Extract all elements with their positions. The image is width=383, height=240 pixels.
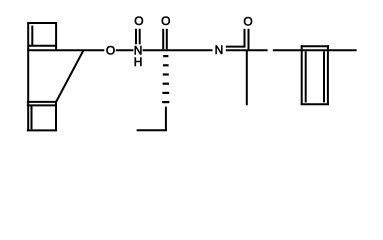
wire: bottom square second top line — [27, 104, 57, 106]
wire: solid bond below hash — [165, 107, 167, 131]
wire: bottom square inner double-bond line left — [31, 105, 33, 129]
wire: hashed wedge dash 2 — [163, 64, 169, 66]
wire: hashed wedge dash 4 — [163, 83, 169, 85]
wire: ring bottom edge — [301, 103, 329, 105]
wire: bottom square bottom edge — [27, 129, 57, 131]
wire: terminal methyl horizontal — [137, 129, 167, 131]
svg-text:O: O — [161, 14, 170, 28]
wire: main chain horizontal (square bottom edge extended to O) — [27, 49, 104, 51]
wire: chain through ring to right methyl — [273, 49, 357, 51]
wire: hashed wedge dash 6 — [162, 101, 169, 103]
wire: ring inner left vertical — [305, 51, 307, 102]
wire: top square top edge — [27, 22, 57, 24]
wire: C=O3 double bond line a — [162, 29, 164, 50]
wire: N1=O2 double bond line a — [135, 29, 137, 45]
wire: hashed wedge dash 5 — [162, 92, 169, 94]
wire: ring top double line — [301, 45, 329, 47]
svg-text:N: N — [215, 43, 224, 57]
svg-text:H: H — [134, 55, 143, 69]
wire: N2=C double bond lower line / chain — [226, 49, 268, 51]
wire: C=O5 double bond line b — [248, 29, 250, 50]
wire: N1=O2 double bond line b — [139, 29, 141, 45]
wire: bottom square right edge — [55, 101, 57, 131]
wire: ring inner right vertical — [323, 51, 325, 102]
wire: bond N1 to carbonyl C — [143, 49, 213, 51]
wire: cubane-left long vertical edge (shared left edge of both squares) — [27, 22, 29, 131]
wire: top square inner double-bond line bottom — [29, 45, 56, 47]
wire: C=O3 double bond line b — [166, 29, 168, 50]
wire: top square right edge — [55, 22, 57, 51]
wire: top square inner double-bond line left — [31, 26, 33, 46]
wire: diagonal bond — [56, 50, 83, 102]
wire: C=O5 double bond line a — [244, 29, 246, 48]
svg-text:O: O — [134, 14, 143, 28]
wire: N2=C double bond upper line — [226, 46, 245, 48]
svg-text:O: O — [243, 14, 252, 28]
wire: ring outer right vertical — [327, 45, 329, 105]
wire: hashed wedge dash 3 — [163, 73, 169, 75]
svg-text:O: O — [106, 44, 115, 58]
wire: bond O1 to N1 — [116, 49, 134, 51]
wire: hashed wedge dash 1 — [163, 55, 168, 57]
wire: ring outer left vertical — [301, 45, 303, 105]
wire: bottom square top edge — [27, 101, 57, 103]
wire: methyl below carbonyl — [246, 50, 248, 105]
